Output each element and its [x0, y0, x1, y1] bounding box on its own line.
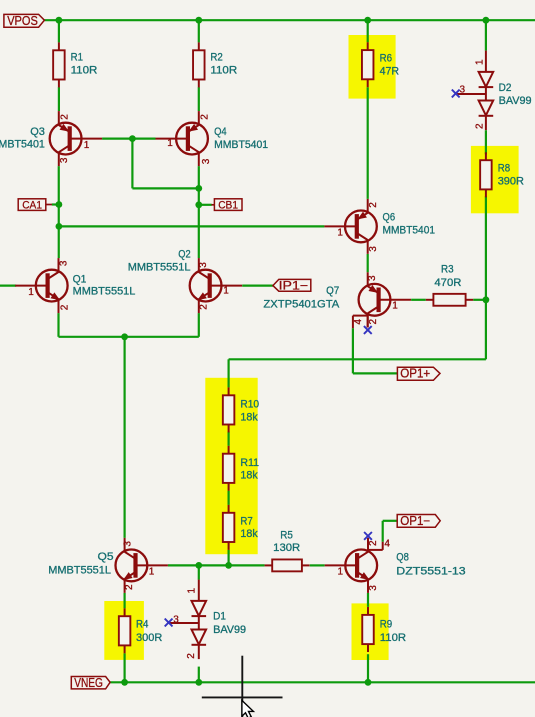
- wire Q5 base to R5: [168, 564, 265, 566]
- global label IP1-: [273, 279, 311, 292]
- wire node A to Q6 base: [59, 225, 325, 227]
- svg-text:R10: R10: [240, 398, 259, 410]
- wire VPOS to D2: [485, 20, 487, 50]
- resistor R7: [223, 505, 235, 550]
- transistor Q8: [325, 538, 377, 593]
- svg-text:1: 1: [28, 287, 34, 298]
- junction Q3-Q4 bases: [129, 135, 136, 142]
- svg-text:Q7: Q7: [326, 285, 339, 297]
- svg-text:1: 1: [187, 587, 198, 593]
- global label OP1+: [397, 367, 440, 381]
- wire VPOS to R1: [58, 20, 60, 42]
- wire junction to D1: [198, 565, 200, 579]
- wire Q8 emitter to R9: [367, 593, 369, 607]
- D2 no-connect X on pin 3: [452, 90, 460, 98]
- wire Q4 collector down to Q2: [198, 166, 200, 258]
- wire junction down: [485, 300, 487, 360]
- junction CA1: [56, 201, 63, 208]
- resistor R6: [362, 42, 374, 87]
- svg-text:R6: R6: [380, 53, 392, 65]
- wire Q3 collector to Q1 collector: [58, 166, 60, 258]
- wire Q1 base to edge: [0, 285, 16, 287]
- svg-text:3: 3: [123, 541, 134, 547]
- resistor R1: [53, 42, 65, 87]
- svg-text:130R: 130R: [273, 542, 300, 554]
- wire R10 to R11: [228, 432, 230, 446]
- svg-text:1: 1: [392, 300, 398, 311]
- wire emitters horizontal: [59, 336, 199, 338]
- wire Q3 base to Q4 base: [102, 138, 155, 140]
- svg-text:OP1+: OP1+: [400, 367, 430, 381]
- junction node A: [56, 223, 63, 230]
- svg-text:1: 1: [84, 140, 90, 151]
- svg-text:3: 3: [198, 262, 209, 268]
- Q8 no-connect X on pin 2: [364, 532, 372, 540]
- diode D1: [170, 580, 207, 660]
- mouse pointer: [242, 700, 254, 717]
- svg-text:110R: 110R: [380, 632, 406, 644]
- junction VNEG-R4: [121, 679, 128, 686]
- wire Q2 base to IP1-: [242, 285, 273, 287]
- svg-text:1: 1: [338, 567, 344, 578]
- wire Q5 emitter to R4: [123, 593, 125, 608]
- Q8 pin 4 lead: [382, 542, 384, 550]
- svg-text:3: 3: [173, 615, 179, 626]
- svg-text:MMBT5551L: MMBT5551L: [48, 564, 111, 576]
- svg-text:2: 2: [60, 114, 71, 120]
- svg-text:2: 2: [199, 114, 210, 120]
- svg-text:2: 2: [368, 202, 379, 208]
- svg-text:3: 3: [368, 246, 379, 252]
- svg-text:47R: 47R: [380, 65, 400, 77]
- junction D1 top: [195, 562, 202, 569]
- wire CB1 stub: [199, 204, 212, 206]
- svg-text:Q1: Q1: [73, 274, 87, 286]
- svg-text:Q6: Q6: [383, 211, 396, 223]
- wire R1 to Q3 emitter: [58, 87, 60, 111]
- svg-text:OP1−: OP1−: [400, 514, 430, 528]
- Q7 pin 4 lead: [353, 315, 368, 317]
- Q8 pin 2 lead: [367, 538, 369, 550]
- highlight box around R9: [352, 603, 389, 660]
- svg-text:MMBT5401: MMBT5401: [214, 139, 268, 151]
- hierarchical label CA1: [18, 199, 46, 212]
- resistor R9: [362, 607, 374, 652]
- wire R3 to node OP1+ column: [473, 299, 486, 301]
- wire Q6 collector to Q7 emitter: [367, 254, 369, 272]
- wire D1 to VNEG: [198, 667, 200, 683]
- svg-text:2: 2: [59, 304, 70, 310]
- wire R8 down to junction: [485, 196, 487, 299]
- resistor R5: [265, 559, 310, 571]
- svg-text:3: 3: [201, 158, 212, 164]
- svg-text:VPOS: VPOS: [7, 14, 38, 28]
- wire OP1- stub: [383, 520, 398, 522]
- wire Q7 pin4 down: [352, 328, 354, 373]
- svg-text:4: 4: [384, 538, 390, 549]
- highlight box around R8: [471, 146, 519, 213]
- svg-text:2: 2: [368, 318, 379, 324]
- wire R7 down to Q5 base net: [228, 550, 230, 566]
- svg-text:MMBT5401: MMBT5401: [383, 224, 436, 236]
- hierarchical label CB1 leader: [212, 204, 215, 206]
- svg-text:Q3: Q3: [30, 126, 45, 138]
- svg-text:R5: R5: [280, 529, 293, 541]
- highlight box around R6: [349, 35, 396, 99]
- svg-text:2: 2: [475, 123, 486, 129]
- transistor Q3: [50, 111, 102, 166]
- svg-text:3: 3: [460, 84, 466, 95]
- global label OP1-: [397, 514, 440, 528]
- wire OP1- down to Q8 pin4: [382, 521, 384, 542]
- svg-text:3: 3: [59, 260, 70, 266]
- junction VNEG-D1: [195, 679, 202, 686]
- svg-text:Q8: Q8: [396, 551, 409, 563]
- svg-text:1: 1: [475, 59, 486, 65]
- svg-text:MMBT5551L: MMBT5551L: [128, 261, 191, 273]
- power label VPOS: [4, 14, 45, 28]
- svg-text:R2: R2: [210, 52, 222, 64]
- wire base junction down: [131, 139, 133, 189]
- svg-text:390R: 390R: [498, 176, 524, 188]
- svg-text:110R: 110R: [210, 65, 237, 77]
- svg-text:18k: 18k: [240, 528, 258, 540]
- wire VPOS rail: [44, 19, 535, 21]
- svg-text:4: 4: [353, 319, 364, 325]
- wire down to R10: [228, 359, 230, 387]
- svg-text:R1: R1: [71, 52, 83, 64]
- svg-text:MMBT5551L: MMBT5551L: [73, 286, 136, 298]
- resistor R8: [480, 152, 492, 197]
- svg-text:1: 1: [223, 286, 229, 297]
- svg-text:R9: R9: [380, 618, 392, 630]
- svg-text:2: 2: [186, 653, 197, 659]
- hierarchical label CB1: [214, 199, 242, 212]
- svg-text:2: 2: [199, 304, 210, 310]
- transistor Q1: [15, 258, 67, 313]
- svg-text:18k: 18k: [240, 469, 258, 481]
- Q7 pin 2 lead: [367, 316, 369, 328]
- svg-text:R7: R7: [240, 515, 252, 527]
- svg-text:2: 2: [368, 540, 379, 546]
- svg-text:2: 2: [124, 584, 135, 590]
- svg-text:R11: R11: [240, 457, 259, 469]
- wire R6 to Q6 emitter: [367, 87, 369, 199]
- highlight box around R4: [104, 601, 144, 660]
- svg-text:110R: 110R: [71, 65, 98, 77]
- transistor Q4: [156, 111, 208, 166]
- resistor R3: [426, 294, 473, 306]
- wire VPOS to R2: [198, 20, 200, 42]
- junction VPOS-R2: [195, 17, 202, 24]
- svg-text:Q4: Q4: [214, 126, 227, 138]
- junction R3-R8: [483, 296, 490, 303]
- junction R7 bottom: [225, 562, 232, 569]
- junction CB1: [195, 201, 202, 208]
- wire Q2 emitter down: [198, 313, 200, 337]
- junction VPOS-D2: [483, 17, 490, 24]
- junction VPOS-R1: [56, 17, 63, 24]
- power label VNEG: [71, 676, 110, 690]
- svg-text:300R: 300R: [136, 632, 162, 644]
- svg-text:D2: D2: [499, 82, 512, 94]
- svg-text:ZXTP5401GTA: ZXTP5401GTA: [263, 298, 340, 310]
- svg-text:18k: 18k: [240, 411, 258, 423]
- wire CA1 stub: [52, 203, 59, 205]
- resistor R11: [223, 446, 235, 491]
- svg-text:1: 1: [149, 566, 155, 577]
- wire R11 to R7: [228, 491, 230, 505]
- svg-text:IP1−: IP1−: [279, 280, 309, 292]
- svg-text:3: 3: [59, 157, 70, 163]
- diode D2: [457, 51, 494, 131]
- svg-text:BAV99: BAV99: [499, 95, 532, 107]
- junction tail: [121, 333, 128, 340]
- wire D2 to R8: [485, 130, 487, 154]
- transistor Q7: [359, 272, 411, 327]
- wire Q1 emitter down: [57, 313, 59, 337]
- highlight box around R10 R11 R7: [205, 378, 257, 554]
- wire R5 to Q8 base: [310, 564, 325, 566]
- D1 no-connect X on pin 3: [165, 619, 173, 627]
- wire stub to OP1+: [353, 372, 398, 374]
- svg-text:R4: R4: [136, 618, 148, 630]
- transistor Q5: [115, 538, 167, 593]
- wire VNEG rail: [110, 681, 535, 683]
- svg-text:D1: D1: [213, 611, 226, 623]
- svg-text:3: 3: [367, 275, 378, 281]
- svg-text:CA1: CA1: [22, 200, 42, 212]
- svg-text:470R: 470R: [434, 277, 461, 289]
- wire tail junction to Q5 collector: [123, 337, 125, 538]
- Q7 no-connect X on pin 2: [364, 326, 372, 334]
- svg-text:1: 1: [337, 227, 343, 238]
- resistor R4: [119, 608, 131, 653]
- transistor Q6: [324, 199, 376, 254]
- transistor Q2: [190, 258, 242, 313]
- wire R4 to VNEG: [123, 653, 125, 682]
- wire R2 to Q4 emitter: [198, 87, 200, 111]
- svg-text:1: 1: [167, 138, 173, 149]
- svg-text:CB1: CB1: [218, 200, 238, 212]
- junction VNEG-R9: [365, 679, 372, 686]
- svg-text:3: 3: [368, 585, 379, 591]
- svg-text:VNEG: VNEG: [74, 676, 103, 690]
- svg-text:R3: R3: [441, 264, 454, 276]
- editor crosshair cursor: [202, 656, 283, 717]
- junction Q4 collector jog: [195, 185, 202, 192]
- svg-text:Q5: Q5: [98, 551, 114, 563]
- svg-text:MMBT5401: MMBT5401: [0, 138, 45, 150]
- wire VPOS to R6: [367, 20, 369, 42]
- resistor R10: [223, 387, 235, 432]
- wire base junction right: [132, 187, 198, 189]
- wire R9 to VNEG: [367, 654, 369, 682]
- svg-text:R8: R8: [498, 163, 510, 175]
- resistor R2: [193, 42, 205, 87]
- junction VPOS-R6: [364, 17, 371, 24]
- hierarchical label CA1 leader: [45, 204, 52, 206]
- svg-text:DZT5551-13: DZT5551-13: [396, 565, 465, 577]
- wire horizontal to R10 column: [229, 358, 486, 360]
- svg-text:Q2: Q2: [178, 248, 190, 260]
- svg-text:BAV99: BAV99: [213, 624, 246, 636]
- wire Q7 base to R3: [411, 299, 426, 301]
